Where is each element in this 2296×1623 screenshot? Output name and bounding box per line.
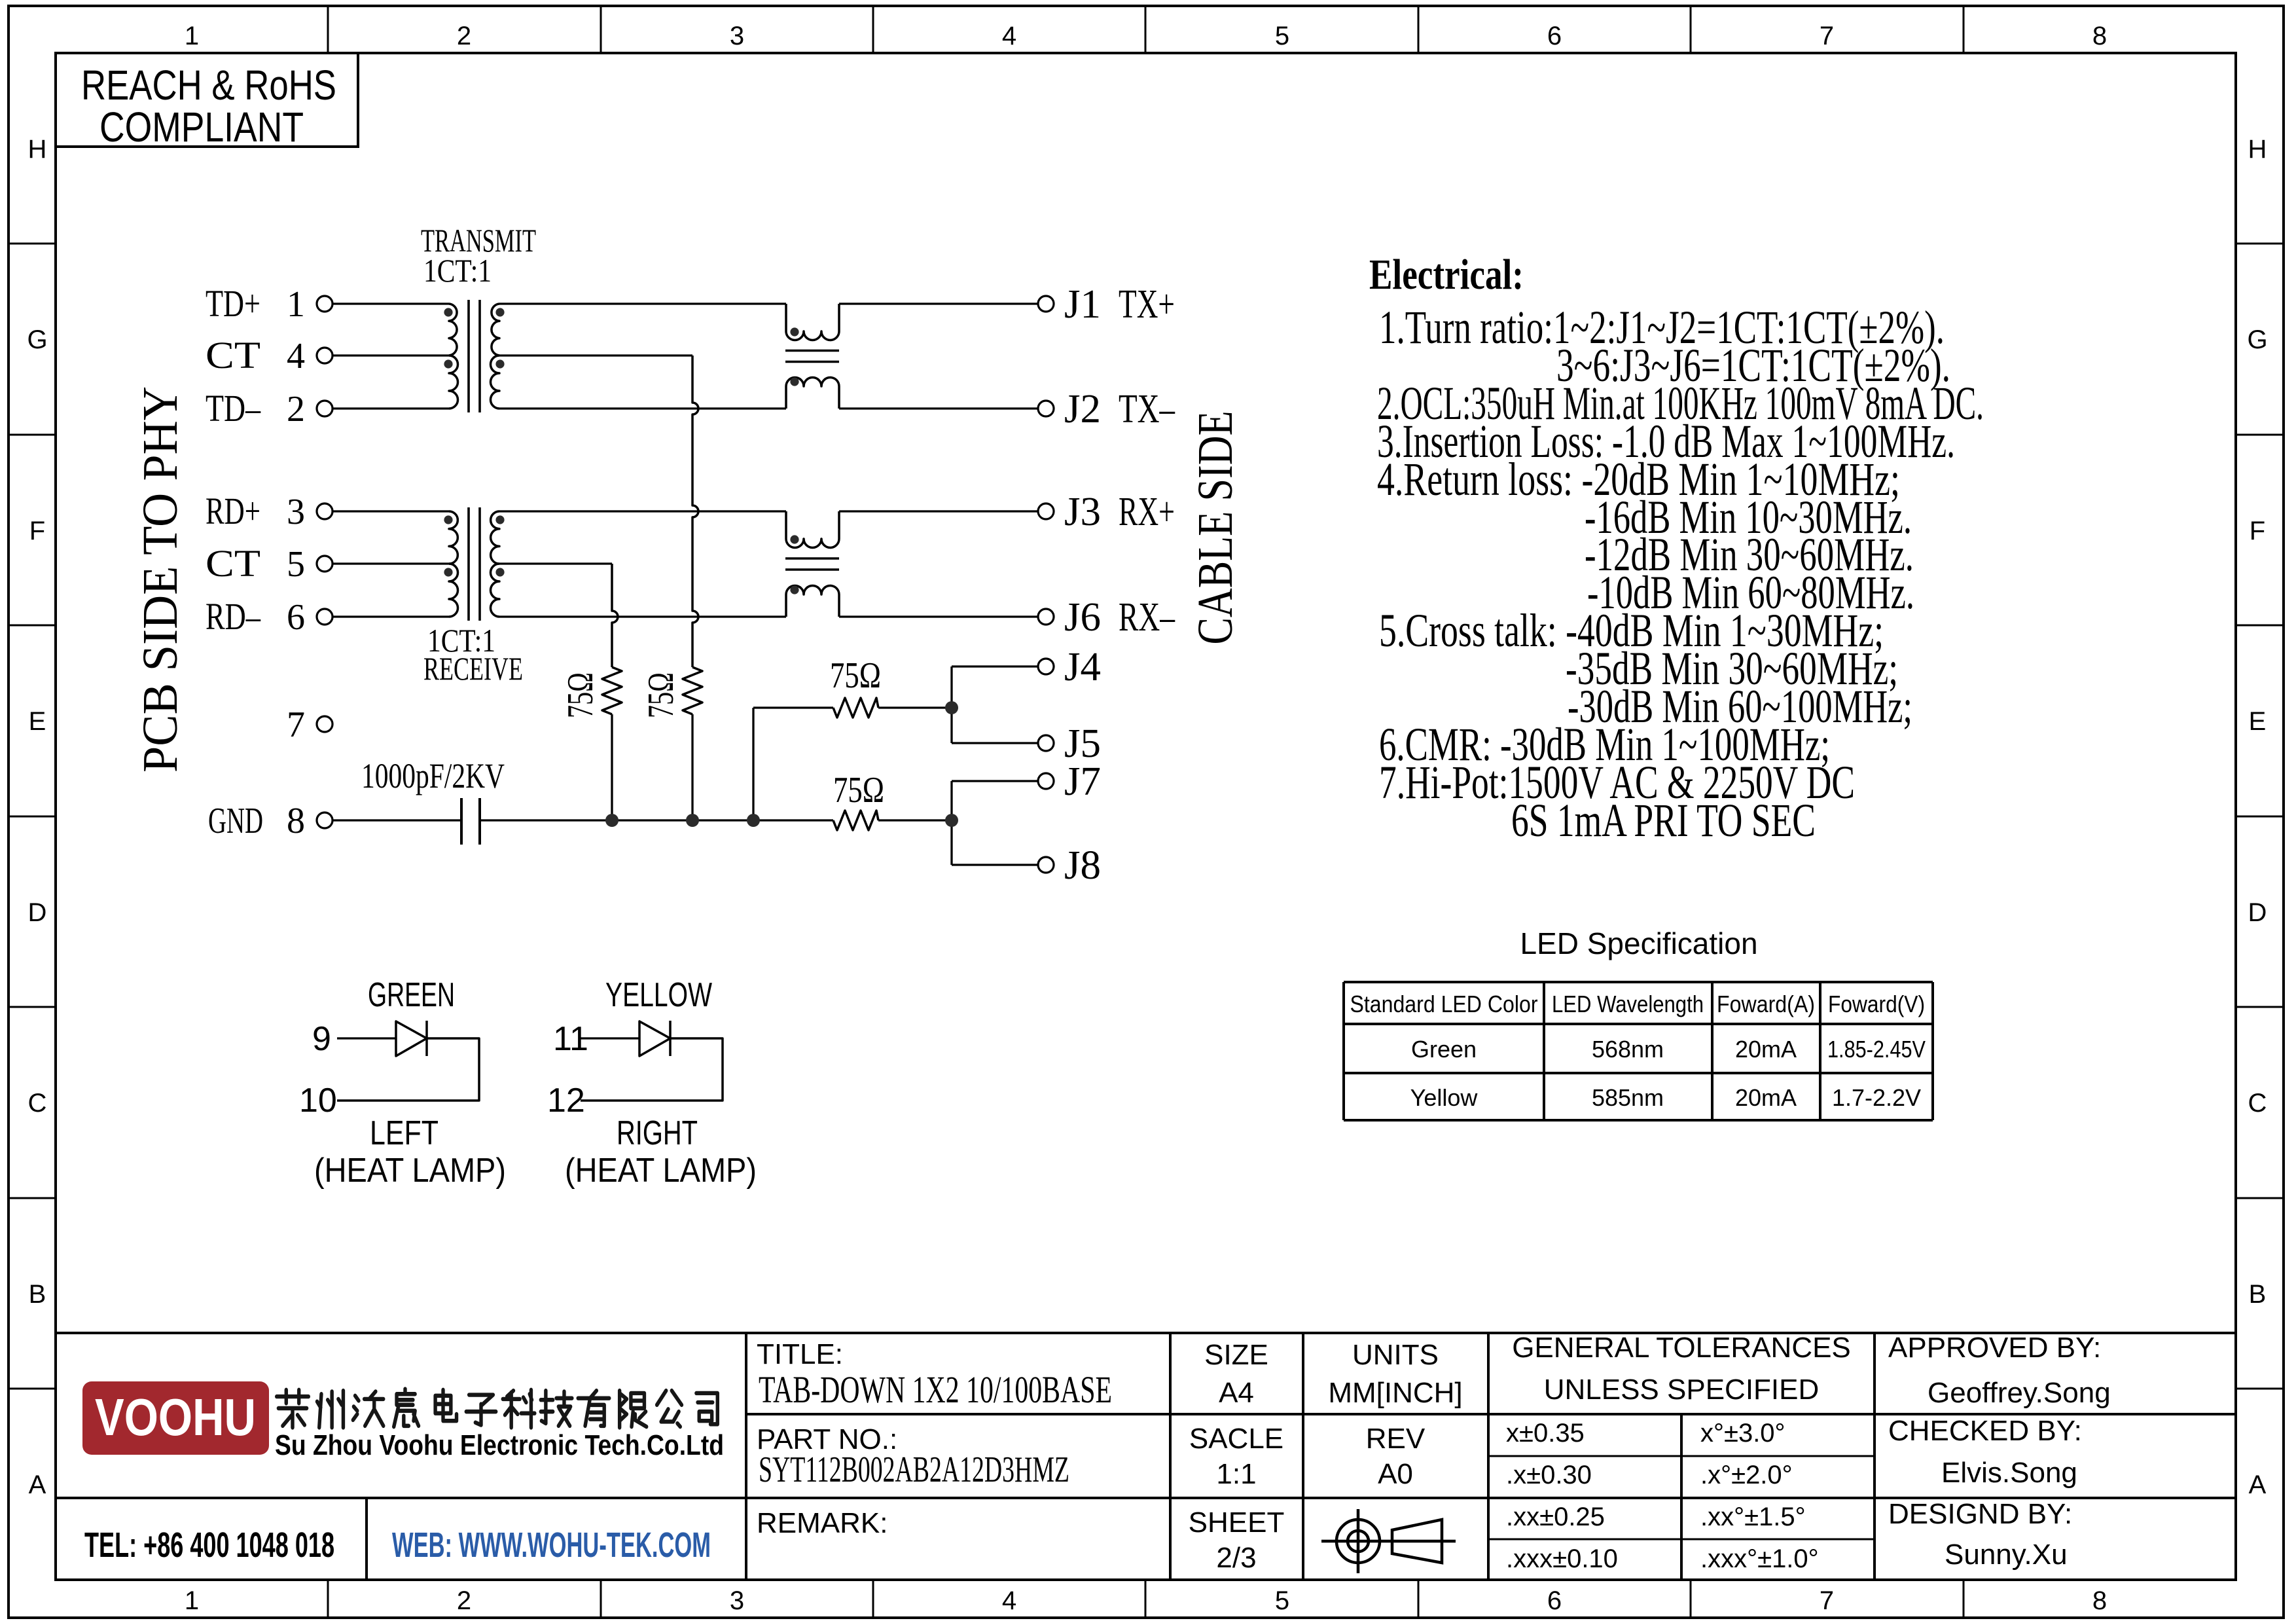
- resistor R2 75 ohm (vertical): [683, 667, 702, 714]
- pin 2 terminal circle (TD–): [317, 401, 332, 416]
- svg-text:6: 6: [1547, 22, 1562, 50]
- svg-text:F: F: [29, 517, 45, 545]
- svg-text:TEL: +86 400 1048 018: TEL: +86 400 1048 018: [84, 1525, 334, 1565]
- svg-text:PCB SIDE TO PHY: PCB SIDE TO PHY: [133, 386, 188, 773]
- node J4/J5 vertical wire: [950, 666, 952, 743]
- svg-text:C: C: [2248, 1089, 2267, 1118]
- svg-text:C: C: [28, 1089, 47, 1118]
- svg-text:GREEN: GREEN: [368, 976, 455, 1014]
- svg-text:.xx±0.25: .xx±0.25: [1506, 1503, 1605, 1531]
- svg-text:.xx°±1.5°: .xx°±1.5°: [1700, 1503, 1806, 1531]
- diode yellow cathode bar: [669, 1021, 672, 1056]
- pin 7 terminal circle (unused): [317, 716, 332, 732]
- LED Specification table grid: [1344, 982, 1933, 1120]
- svg-text:A: A: [2249, 1470, 2267, 1499]
- svg-text:G: G: [2247, 325, 2267, 354]
- svg-text:GND: GND: [208, 801, 263, 841]
- resistor R4 75 ohm (horizontal): [833, 698, 878, 718]
- terminal circle J5: [1038, 735, 1054, 751]
- svg-text:2: 2: [457, 1586, 471, 1615]
- wire pin2 to T1 primary: [332, 407, 449, 409]
- LED green anode wire pin 9: [337, 1037, 396, 1039]
- terminal circle J3: [1038, 503, 1054, 519]
- junction dot R2/ground bus: [686, 814, 699, 827]
- wire pin4 to T1 center tap: [332, 354, 449, 356]
- svg-text:.xxx±0.10: .xxx±0.10: [1506, 1544, 1618, 1573]
- svg-text:LED Wavelength: LED Wavelength: [1552, 991, 1704, 1017]
- LED yellow cathode loop wire to pin 12: [581, 1038, 723, 1101]
- terminal circle J8: [1038, 857, 1054, 873]
- terminal circle J1: [1038, 296, 1054, 312]
- svg-text:6S 1mA PRI TO SEC: 6S 1mA PRI TO SEC: [1511, 794, 1816, 847]
- wire pin5 to T2 center tap: [332, 562, 449, 564]
- svg-text:VOOHU: VOOHU: [95, 1388, 256, 1446]
- svg-text:3: 3: [730, 1586, 744, 1615]
- svg-text:Yellow: Yellow: [1410, 1084, 1479, 1111]
- svg-text:Electrical:: Electrical:: [1369, 251, 1524, 299]
- wire choke L2 to J6: [839, 615, 1038, 617]
- svg-text:9: 9: [312, 1020, 331, 1058]
- terminal circle J2: [1038, 401, 1054, 416]
- svg-text:3: 3: [287, 492, 305, 532]
- company name Chinese characters (stylized): [277, 1390, 309, 1428]
- branch wire to resistor R4 from ground bus: [752, 708, 754, 820]
- terminal circle J6: [1038, 609, 1054, 625]
- svg-text:(HEAT LAMP): (HEAT LAMP): [565, 1152, 757, 1190]
- node J7/J8 vertical wire: [950, 781, 952, 865]
- svg-text:SYT112B002AB2A12D3HMZ: SYT112B002AB2A12D3HMZ: [759, 1450, 1069, 1490]
- svg-text:6: 6: [1547, 1586, 1562, 1615]
- svg-text:B: B: [29, 1280, 46, 1309]
- LED yellow anode wire pin 11: [581, 1037, 639, 1039]
- svg-text:Geoffrey.Song: Geoffrey.Song: [1928, 1377, 2111, 1409]
- svg-text:75Ω: 75Ω: [641, 672, 681, 718]
- svg-text:B: B: [2249, 1280, 2267, 1309]
- svg-text:8: 8: [287, 801, 305, 841]
- svg-text:2: 2: [287, 389, 305, 429]
- svg-text:A: A: [29, 1470, 46, 1499]
- title block grid: [56, 1333, 2236, 1580]
- terminal circle J4: [1038, 659, 1054, 674]
- ground bus wire from R3 to node J7/J8: [878, 819, 952, 821]
- junction dot node J7/J8: [945, 814, 958, 827]
- svg-text:CT: CT: [206, 542, 260, 585]
- svg-text:1.7-2.2V: 1.7-2.2V: [1832, 1084, 1921, 1111]
- svg-text:1: 1: [185, 1586, 199, 1615]
- svg-text:SACLE: SACLE: [1189, 1423, 1283, 1455]
- svg-text:Foward(V): Foward(V): [1828, 991, 1925, 1017]
- LED green cathode loop wire to pin 10: [337, 1038, 479, 1101]
- svg-text:RX+: RX+: [1119, 490, 1175, 534]
- svg-text:75Ω: 75Ω: [833, 770, 884, 811]
- wire choke L1 to J1: [839, 302, 1038, 304]
- svg-text:10: 10: [299, 1082, 337, 1120]
- svg-text:TD+: TD+: [206, 282, 260, 325]
- svg-text:20mA: 20mA: [1735, 1036, 1797, 1063]
- wire R2 to ground bus: [691, 714, 693, 820]
- svg-text:J4: J4: [1064, 645, 1101, 689]
- wire to J5: [952, 742, 1038, 744]
- svg-text:75Ω: 75Ω: [830, 655, 881, 696]
- company logo VOOHU: [82, 1381, 269, 1455]
- svg-text:TX+: TX+: [1119, 282, 1175, 327]
- svg-text:x±0.35: x±0.35: [1506, 1419, 1585, 1448]
- svg-text:Su Zhou Voohu Electronic Tech.: Su Zhou Voohu Electronic Tech.Co.Ltd: [275, 1429, 724, 1461]
- svg-text:CABLE SIDE: CABLE SIDE: [1188, 411, 1243, 645]
- svg-text:(HEAT LAMP): (HEAT LAMP): [314, 1152, 506, 1190]
- svg-text:REMARK:: REMARK:: [757, 1507, 888, 1539]
- wire to J4: [952, 665, 1038, 667]
- svg-text:8: 8: [2092, 22, 2107, 50]
- svg-text:E: E: [29, 707, 46, 736]
- svg-text:5: 5: [1275, 22, 1289, 50]
- wire to J8: [952, 864, 1038, 866]
- svg-text:1: 1: [185, 22, 199, 50]
- common-mode choke L1 top winding: [786, 304, 839, 340]
- svg-text:TD–: TD–: [206, 387, 261, 429]
- svg-text:REACH & RoHS: REACH & RoHS: [81, 62, 336, 109]
- svg-text:1.85-2.45V: 1.85-2.45V: [1827, 1036, 1926, 1063]
- svg-text:GENERAL TOLERANCES: GENERAL TOLERANCES: [1512, 1332, 1851, 1364]
- pin 3 terminal circle (RD+): [317, 503, 332, 519]
- svg-text:RD+: RD+: [206, 490, 260, 532]
- wire T1 secondary bottom to choke L1: [499, 407, 786, 409]
- svg-text:UNITS: UNITS: [1352, 1339, 1439, 1371]
- svg-text:D: D: [28, 898, 47, 927]
- svg-text:WEB: WWW.WOHU-TEK.COM: WEB: WWW.WOHU-TEK.COM: [392, 1525, 711, 1565]
- third angle projection symbol: [1321, 1509, 1456, 1573]
- diode yellow triangle: [639, 1021, 670, 1056]
- svg-text:A4: A4: [1219, 1377, 1254, 1409]
- junction dot node J4/J5: [945, 701, 958, 714]
- svg-text:J7: J7: [1064, 759, 1101, 804]
- svg-text:3: 3: [730, 22, 744, 50]
- svg-text:J8: J8: [1064, 843, 1101, 888]
- svg-text:Elvis.Song: Elvis.Song: [1941, 1457, 2077, 1489]
- svg-text:Standard LED Color: Standard LED Color: [1350, 991, 1538, 1017]
- common-mode choke L2 top winding: [786, 511, 839, 548]
- junction dot R1/ground bus: [605, 814, 619, 827]
- svg-text:4: 4: [1002, 1586, 1016, 1615]
- svg-text:G: G: [27, 325, 47, 354]
- svg-text:4: 4: [287, 336, 305, 376]
- svg-text:7: 7: [1820, 22, 1834, 50]
- svg-text:1000pF/2KV: 1000pF/2KV: [361, 756, 505, 795]
- capacitor C1 1000pF/2KV plates: [460, 798, 463, 845]
- svg-text:8: 8: [2092, 1586, 2107, 1615]
- svg-text:RIGHT: RIGHT: [617, 1114, 698, 1152]
- svg-text:TAB-DOWN 1X2 10/100BASE: TAB-DOWN 1X2 10/100BASE: [759, 1368, 1112, 1411]
- wire pin6 to T2 primary: [332, 615, 449, 617]
- svg-text:6: 6: [287, 597, 305, 638]
- svg-text:SHEET: SHEET: [1189, 1506, 1285, 1539]
- svg-text:1CT:1: 1CT:1: [423, 252, 492, 289]
- transformer T1 primary winding: [449, 304, 457, 356]
- svg-text:H: H: [2248, 135, 2267, 164]
- svg-text:UNLESS SPECIFIED: UNLESS SPECIFIED: [1544, 1374, 1820, 1406]
- svg-text:.x°±2.0°: .x°±2.0°: [1700, 1461, 1793, 1489]
- svg-text:x°±3.0°: x°±3.0°: [1700, 1419, 1785, 1448]
- svg-text:E: E: [2249, 707, 2267, 736]
- common-mode choke L1 polarity dots: [790, 327, 798, 336]
- wire T2 center tap down to resistor R1 (with wire hop): [499, 562, 612, 564]
- svg-text:COMPLIANT: COMPLIANT: [99, 103, 304, 151]
- svg-text:20mA: 20mA: [1735, 1084, 1797, 1111]
- svg-text:YELLOW: YELLOW: [605, 976, 712, 1014]
- svg-text:.xxx°±1.0°: .xxx°±1.0°: [1700, 1544, 1819, 1573]
- transformer T1 polarity dots: [444, 308, 452, 316]
- svg-text:F: F: [2250, 517, 2265, 545]
- wire to J7: [952, 780, 1038, 782]
- svg-text:APPROVED BY:: APPROVED BY:: [1888, 1332, 2101, 1364]
- wire R1 to ground bus: [611, 714, 613, 820]
- svg-text:LEFT: LEFT: [370, 1114, 439, 1152]
- transformer T1 secondary winding: [492, 304, 499, 356]
- transformer T1 core: [467, 300, 470, 412]
- svg-text:REV: REV: [1366, 1423, 1426, 1455]
- svg-text:Sunny.Xu: Sunny.Xu: [1945, 1539, 2068, 1571]
- REACH & RoHS COMPLIANT note box: [56, 53, 358, 147]
- svg-text:DESIGND BY:: DESIGND BY:: [1888, 1498, 2072, 1530]
- svg-text:7: 7: [287, 704, 305, 745]
- svg-text:SIZE: SIZE: [1204, 1339, 1268, 1371]
- transformer T2 core: [467, 507, 470, 621]
- diode green cathode bar: [425, 1021, 428, 1056]
- wire R4 to node J4/J5: [878, 706, 952, 708]
- svg-text:5: 5: [1275, 1586, 1289, 1615]
- wire pin1 to T1 primary: [332, 302, 449, 304]
- svg-text:1: 1: [287, 284, 305, 325]
- svg-text:11: 11: [553, 1020, 588, 1058]
- svg-text:2/3: 2/3: [1216, 1542, 1256, 1574]
- pin 6 terminal circle (RD–): [317, 609, 332, 625]
- wire choke L2 to J3: [839, 510, 1038, 512]
- svg-text:H: H: [28, 135, 47, 164]
- svg-text:2: 2: [457, 22, 471, 50]
- svg-text:D: D: [2248, 898, 2267, 927]
- svg-text:TITLE:: TITLE:: [757, 1338, 843, 1370]
- wire T2 secondary bottom to choke L2: [499, 615, 786, 617]
- pin 1 terminal circle (TD+): [317, 296, 332, 312]
- svg-text:4: 4: [1002, 22, 1016, 50]
- svg-text:585nm: 585nm: [1592, 1084, 1664, 1111]
- common-mode choke L1 bottom winding: [786, 378, 839, 409]
- svg-text:CT: CT: [206, 334, 260, 376]
- terminal circle J7: [1038, 773, 1054, 789]
- svg-text:J3: J3: [1064, 490, 1101, 534]
- wire T1 secondary top to choke L1: [499, 302, 786, 304]
- wire T2 secondary top to choke L2: [499, 510, 786, 512]
- svg-text:RX–: RX–: [1119, 595, 1175, 640]
- wire pin8 to capacitor C1: [332, 819, 461, 821]
- svg-text:MM[INCH]: MM[INCH]: [1328, 1377, 1462, 1409]
- pin 5 terminal circle (CT): [317, 556, 332, 572]
- svg-text:J2: J2: [1064, 387, 1101, 431]
- transformer T2 secondary winding: [491, 511, 499, 564]
- wire choke L1 to J2: [839, 407, 1038, 409]
- svg-text:568nm: 568nm: [1592, 1036, 1664, 1063]
- transformer T2 polarity dots: [444, 515, 452, 524]
- svg-text:J6: J6: [1064, 595, 1101, 640]
- pin 4 terminal circle (CT): [317, 348, 332, 363]
- svg-text:5: 5: [287, 544, 305, 585]
- junction dot R4 branch/ground bus: [747, 814, 760, 827]
- svg-text:75Ω: 75Ω: [560, 672, 601, 718]
- wire T1 center tap down to resistor R2 (with wire hops): [499, 354, 692, 356]
- common-mode choke L2 polarity dots: [790, 535, 798, 543]
- svg-text:TX–: TX–: [1119, 387, 1175, 431]
- resistor R1 75 ohm (vertical): [602, 667, 622, 714]
- svg-text:12: 12: [547, 1082, 585, 1120]
- svg-text:Green: Green: [1411, 1036, 1477, 1063]
- transformer T2 primary winding: [449, 511, 457, 564]
- svg-text:Foward(A): Foward(A): [1717, 991, 1815, 1017]
- svg-text:CHECKED BY:: CHECKED BY:: [1888, 1415, 2082, 1447]
- diode green triangle: [396, 1021, 427, 1056]
- svg-text:1:1: 1:1: [1216, 1458, 1256, 1490]
- svg-text:7: 7: [1820, 1586, 1834, 1615]
- svg-text:LED Specification: LED Specification: [1520, 926, 1757, 960]
- svg-text:RECEIVE: RECEIVE: [423, 650, 523, 687]
- common-mode choke L2 core: [785, 557, 839, 560]
- pin 8 terminal circle (GND): [317, 812, 332, 828]
- wire pin3 to T2 primary: [332, 510, 449, 512]
- svg-text:RD–: RD–: [206, 595, 261, 638]
- svg-text:A0: A0: [1378, 1458, 1413, 1490]
- svg-text:.x±0.30: .x±0.30: [1506, 1461, 1592, 1489]
- resistor R3 75 ohm (horizontal, on ground bus): [833, 811, 878, 830]
- svg-text:J1: J1: [1064, 282, 1101, 327]
- common-mode choke L2 bottom winding: [786, 586, 839, 617]
- common-mode choke L1 core: [785, 350, 839, 352]
- ground bus wire from C1 to resistor R3: [480, 819, 833, 821]
